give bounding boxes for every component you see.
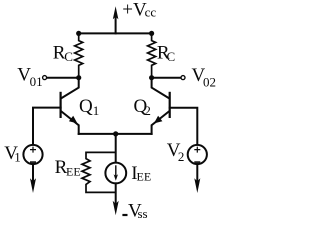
node: emitter junction — [113, 131, 118, 136]
transistor Q1 — [61, 78, 79, 134]
label -Vss — [122, 214, 127, 216]
wire: to V01 terminal — [47, 77, 79, 79]
wire: tail down to IEE — [115, 134, 117, 162]
source V1 — [23, 145, 42, 164]
arrow: V1 to -Vss — [30, 178, 36, 193]
resistor RC (right) — [148, 33, 156, 77]
wire: emitter rail — [79, 133, 152, 135]
svg-text:cc: cc — [145, 5, 157, 20]
svg-text:ss: ss — [138, 206, 148, 221]
transistor Q2 — [152, 78, 170, 134]
node: rail-right junction — [149, 31, 154, 36]
wire: +Vcc top rail — [79, 32, 152, 34]
wire: below V1 — [32, 164, 34, 183]
terminal V02 — [181, 76, 185, 80]
arrow: -Vss — [113, 201, 119, 216]
svg-text:02: 02 — [203, 75, 216, 90]
svg-text:EE: EE — [66, 164, 81, 178]
svg-text:2: 2 — [144, 103, 151, 118]
wire: below V2 — [196, 164, 198, 183]
source V2 — [188, 145, 207, 164]
wire: Vcc stem — [115, 18, 117, 34]
arrow: V2 to -Vss — [194, 178, 200, 193]
wire: to V02 terminal — [152, 77, 181, 79]
node: rail-left junction — [76, 31, 81, 36]
svg-text:1: 1 — [14, 150, 21, 165]
node: V02 tap junction — [149, 75, 154, 80]
resistor REE branch — [82, 152, 116, 192]
wire: Q1 base — [33, 108, 61, 145]
power arrow +Vcc — [113, 6, 119, 19]
svg-text:+V: +V — [122, 0, 147, 21]
resistor RC (left) — [75, 33, 83, 77]
svg-text:Q: Q — [79, 96, 93, 117]
wire: Q2 base — [170, 108, 198, 145]
svg-text:C: C — [64, 49, 73, 64]
svg-text:C: C — [167, 49, 176, 64]
terminal V01 — [43, 76, 47, 80]
node: V01 tap junction — [76, 75, 81, 80]
svg-text:2: 2 — [178, 149, 185, 164]
wire: IEE to -Vss — [115, 183, 117, 205]
svg-text:EE: EE — [137, 170, 152, 184]
svg-text:01: 01 — [30, 74, 43, 89]
current source IEE — [105, 163, 126, 184]
svg-text:1: 1 — [93, 103, 100, 118]
